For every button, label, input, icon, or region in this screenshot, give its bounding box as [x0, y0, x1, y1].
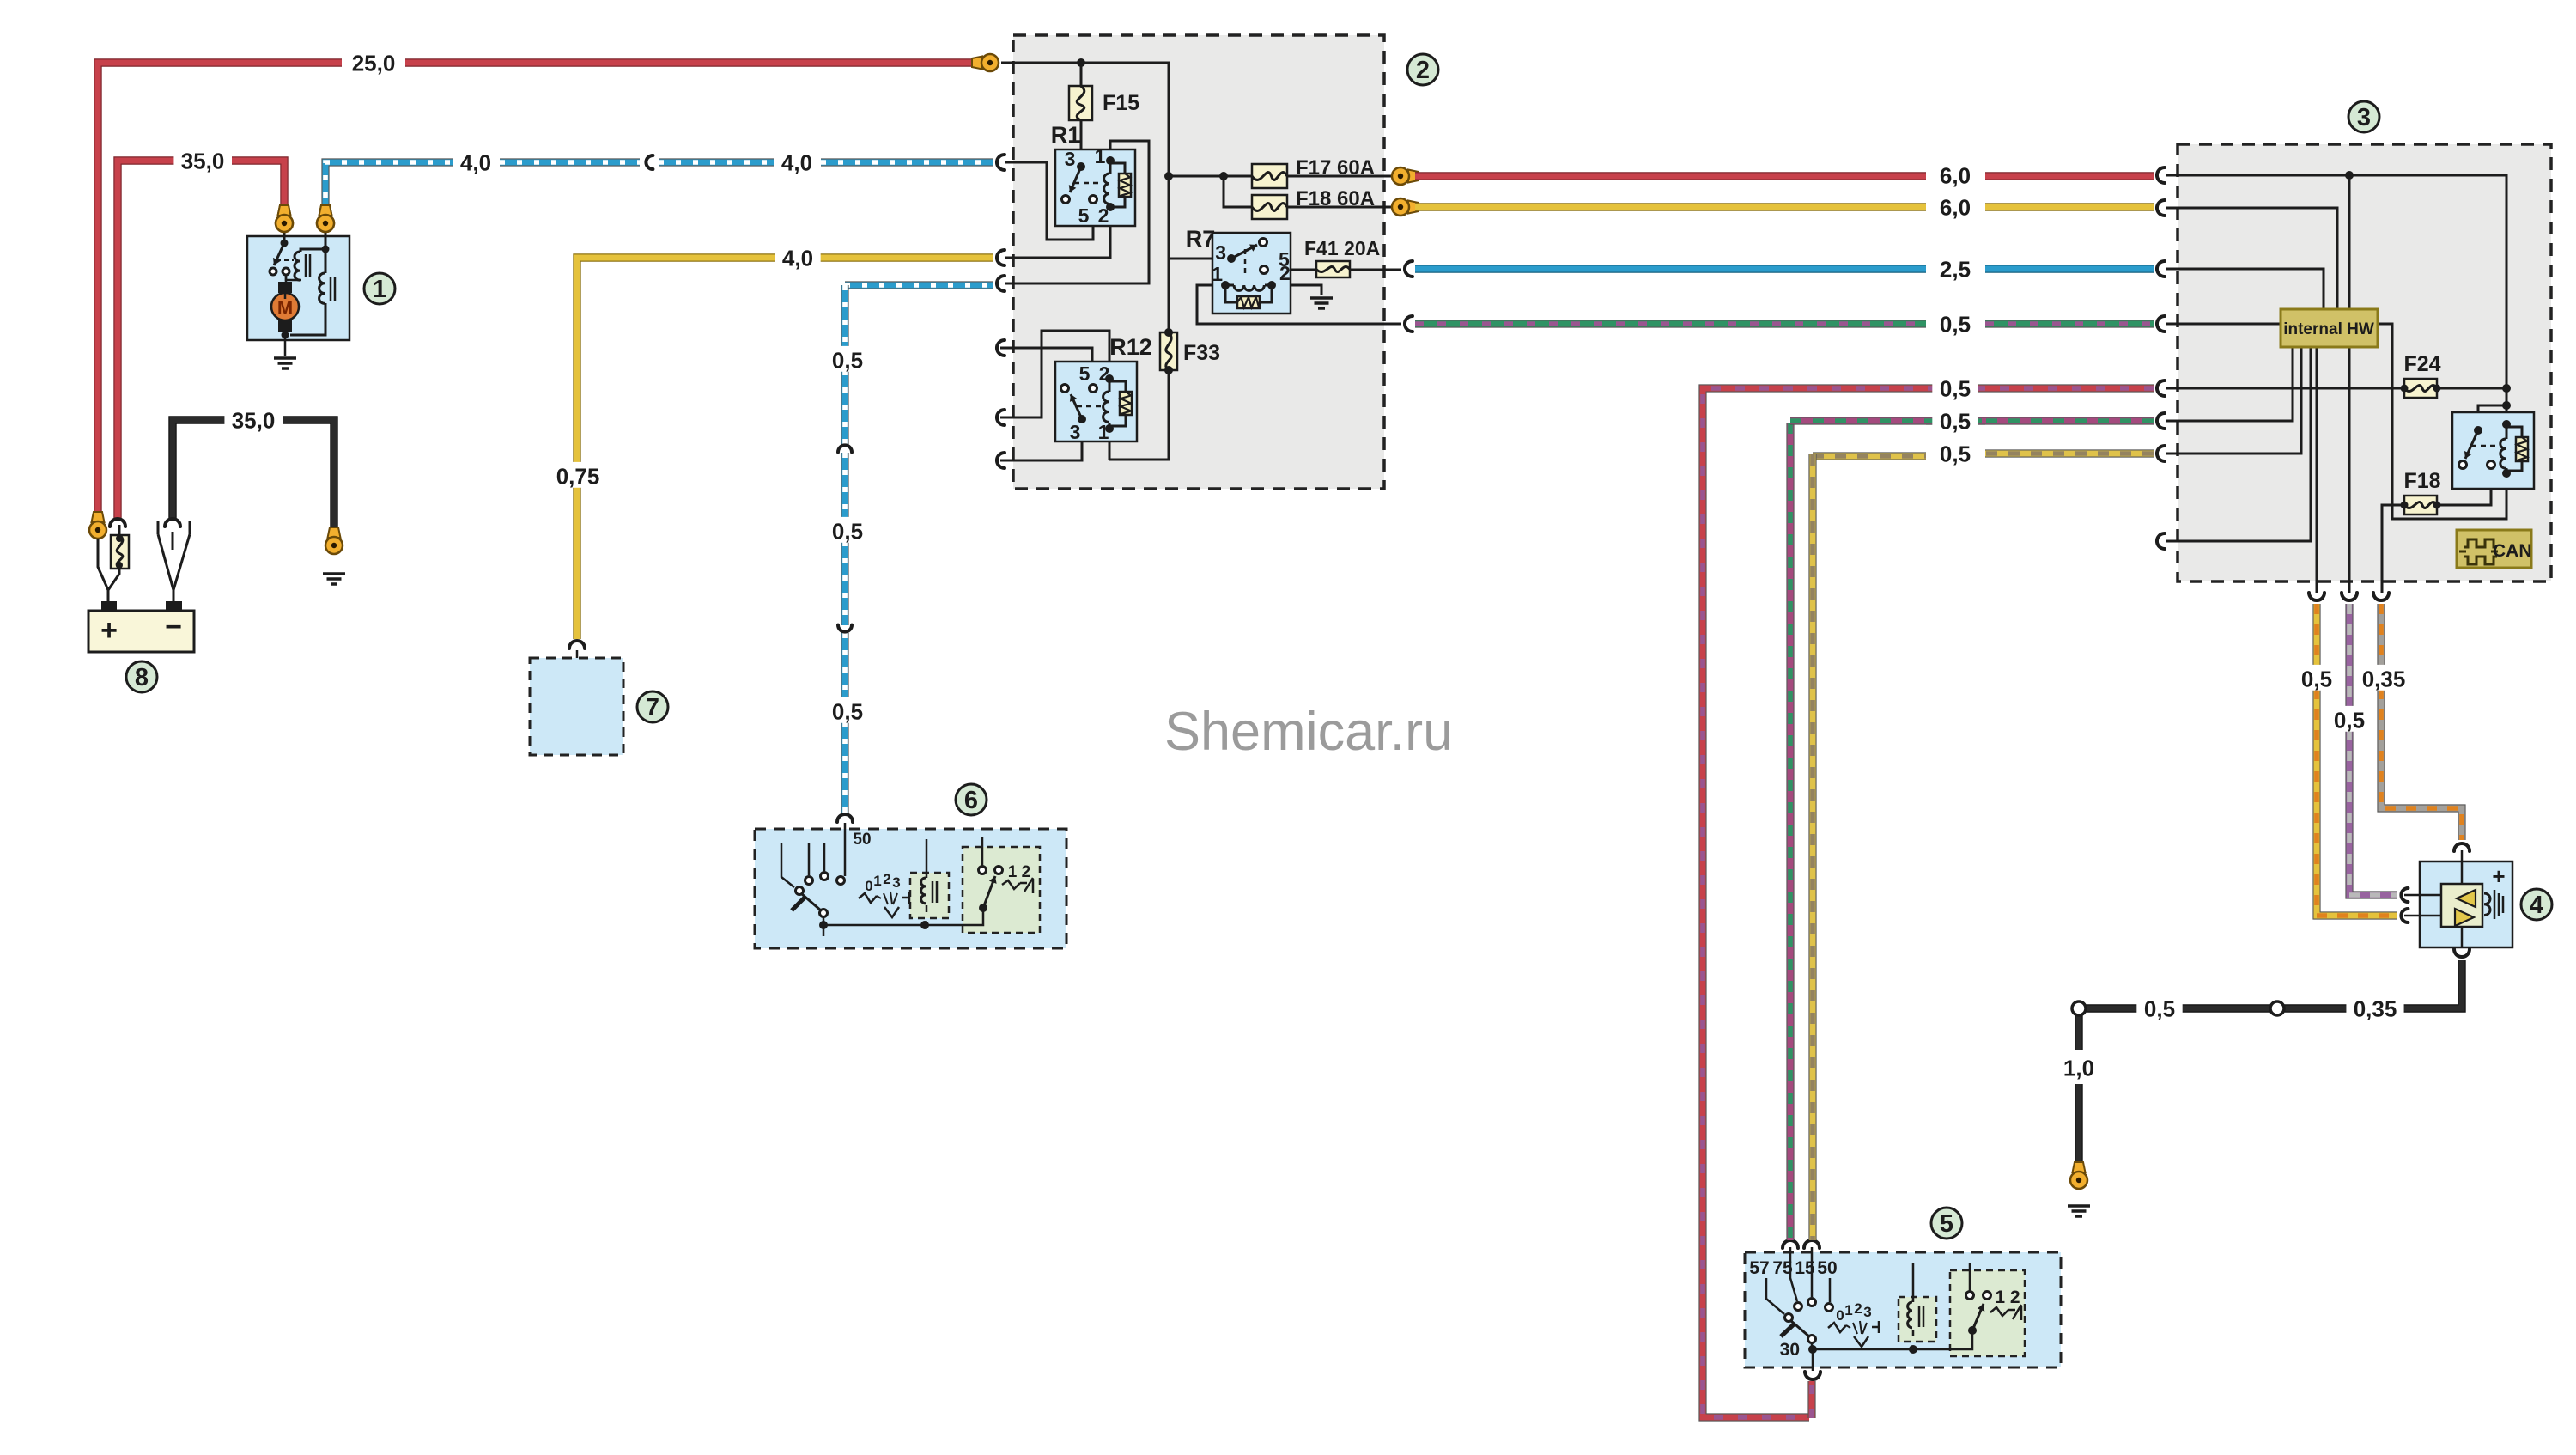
- svg-text:1: 1: [1844, 1302, 1852, 1318]
- svg-text:F15: F15: [1103, 91, 1139, 115]
- svg-text:2: 2: [1854, 1300, 1862, 1317]
- svg-text:F17 60A: F17 60A: [1296, 156, 1375, 180]
- svg-text:1 2: 1 2: [1995, 1288, 2020, 1307]
- svg-text:0: 0: [865, 878, 872, 894]
- svg-text:6,0: 6,0: [1940, 194, 1971, 220]
- svg-text:1: 1: [373, 276, 386, 303]
- svg-text:CAN: CAN: [2493, 541, 2532, 561]
- svg-text:R1: R1: [1051, 122, 1081, 148]
- svg-text:4,0: 4,0: [781, 149, 812, 175]
- svg-text:2: 2: [1416, 57, 1430, 84]
- svg-text:25,0: 25,0: [352, 50, 396, 76]
- svg-text:35,0: 35,0: [181, 148, 225, 174]
- svg-text:0,5: 0,5: [1940, 408, 1971, 434]
- svg-text:4: 4: [2530, 892, 2543, 919]
- svg-text:5: 5: [1078, 204, 1090, 227]
- svg-text:F18 60A: F18 60A: [1296, 187, 1375, 210]
- svg-text:0,5: 0,5: [2144, 995, 2175, 1021]
- svg-text:8: 8: [135, 664, 149, 691]
- svg-text:4,0: 4,0: [460, 149, 491, 175]
- svg-text:2: 2: [1098, 204, 1109, 227]
- svg-text:0,5: 0,5: [1940, 375, 1971, 401]
- svg-text:1 2: 1 2: [1008, 863, 1030, 881]
- svg-text:0,5: 0,5: [1940, 441, 1971, 466]
- svg-text:3: 3: [1863, 1304, 1871, 1320]
- svg-text:2,5: 2,5: [1940, 256, 1971, 282]
- svg-text:1: 1: [1098, 421, 1109, 443]
- svg-text:R7: R7: [1186, 226, 1216, 252]
- svg-text:7: 7: [646, 694, 659, 721]
- svg-text:0,35: 0,35: [2362, 666, 2406, 691]
- svg-text:0,5: 0,5: [832, 347, 863, 373]
- svg-text:2: 2: [883, 871, 890, 887]
- svg-text:Shemicar.ru: Shemicar.ru: [1164, 702, 1453, 762]
- svg-text:2: 2: [1279, 262, 1291, 284]
- svg-text:5: 5: [1079, 362, 1091, 385]
- svg-text:R12: R12: [1109, 334, 1152, 360]
- svg-text:0,5: 0,5: [1940, 311, 1971, 337]
- svg-text:F33: F33: [1183, 341, 1220, 365]
- svg-text:3: 3: [892, 874, 900, 891]
- svg-text:50: 50: [853, 831, 871, 849]
- svg-text:0,5: 0,5: [2334, 707, 2365, 733]
- svg-text:30: 30: [1780, 1340, 1800, 1360]
- svg-text:3: 3: [1070, 421, 1081, 443]
- svg-text:0,5: 0,5: [2301, 666, 2332, 691]
- svg-text:6,0: 6,0: [1940, 162, 1971, 188]
- svg-text:57: 57: [1749, 1258, 1769, 1278]
- svg-text:internal HW: internal HW: [2283, 320, 2374, 338]
- svg-text:−: −: [165, 611, 182, 643]
- svg-text:3: 3: [2357, 104, 2371, 131]
- svg-text:F24: F24: [2403, 352, 2440, 376]
- svg-text:F41 20A: F41 20A: [1304, 237, 1380, 259]
- svg-text:1: 1: [873, 873, 881, 889]
- svg-text:+: +: [2492, 863, 2505, 889]
- svg-text:0,35: 0,35: [2354, 995, 2397, 1021]
- svg-text:0,5: 0,5: [832, 698, 863, 724]
- svg-text:1: 1: [1212, 263, 1223, 285]
- svg-text:50: 50: [1817, 1258, 1837, 1278]
- svg-text:3: 3: [1215, 241, 1226, 264]
- svg-text:0,5: 0,5: [832, 518, 863, 544]
- svg-text:4,0: 4,0: [782, 245, 813, 271]
- svg-text:M: M: [277, 297, 293, 319]
- svg-text:0: 0: [1836, 1307, 1844, 1324]
- svg-text:5: 5: [1940, 1210, 1953, 1238]
- svg-text:2: 2: [1099, 362, 1110, 385]
- svg-text:35,0: 35,0: [232, 407, 276, 433]
- svg-text:1,0: 1,0: [2063, 1055, 2094, 1081]
- svg-text:+: +: [100, 614, 118, 647]
- svg-text:1: 1: [1095, 145, 1106, 167]
- svg-text:3: 3: [1065, 148, 1076, 170]
- svg-text:F18: F18: [2403, 469, 2440, 493]
- svg-text:6: 6: [964, 787, 978, 814]
- svg-text:0,75: 0,75: [556, 463, 600, 489]
